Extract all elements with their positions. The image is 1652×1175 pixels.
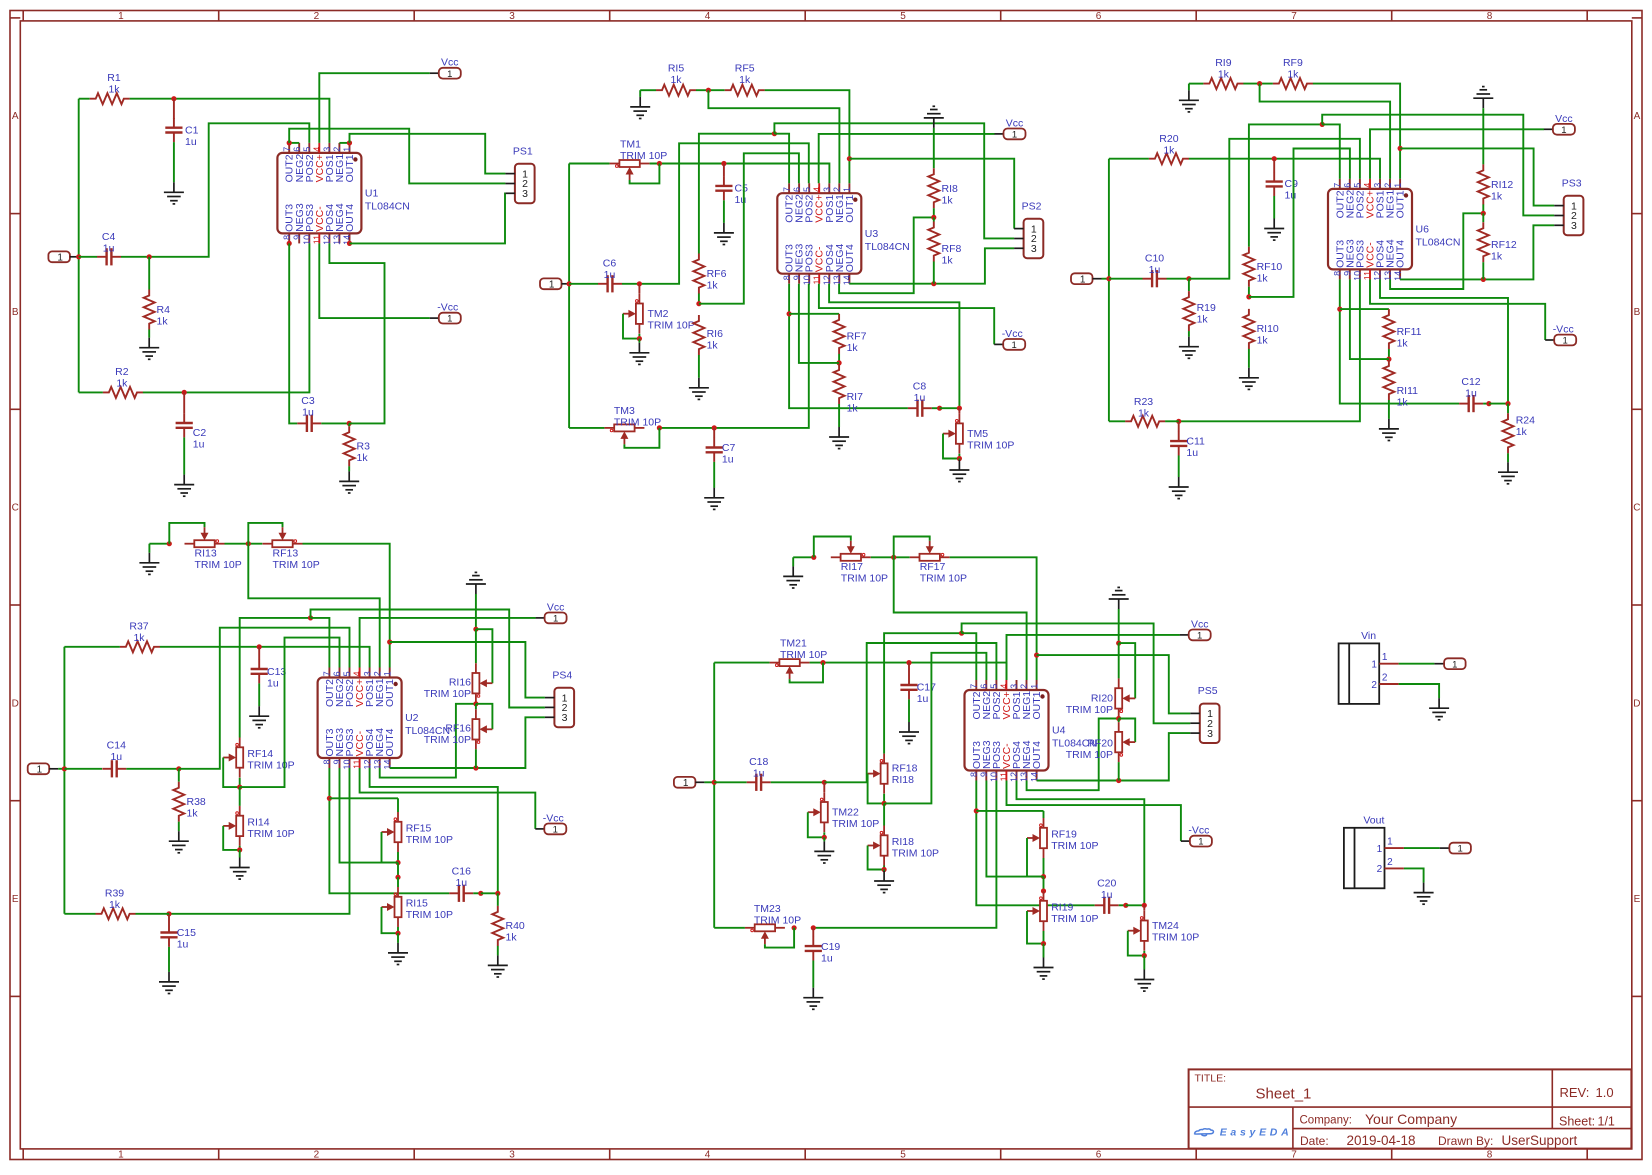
junction pin1 riser <box>847 156 852 161</box>
wire RI17 loop <box>814 537 851 558</box>
wire pin4 to Vcc <box>1370 129 1544 179</box>
wire to PS4.2 <box>311 610 545 708</box>
junction pin7 line <box>308 615 313 620</box>
power flag -Vcc3 <box>1545 339 1554 341</box>
wire C19 to ground <box>812 961 814 988</box>
svg-text:C5: C5 <box>735 183 749 195</box>
capacitor C13 <box>258 659 260 669</box>
pin 5 (POS2) <box>808 183 810 193</box>
wire to RF16 <box>475 704 477 710</box>
junction RI17 left <box>811 555 816 560</box>
op-amp U6 TL084CN <box>1328 189 1412 270</box>
svg-text:U2: U2 <box>405 712 419 724</box>
pin 13 (NEG4) <box>379 758 381 768</box>
wire RI10 to ground <box>1248 349 1250 368</box>
wire to RI16 <box>475 629 477 663</box>
junction TM23 wiper <box>792 925 797 930</box>
junction RI19 bottom <box>1041 941 1046 946</box>
junction RF15 bottom <box>395 860 400 865</box>
trimmer RF20 <box>1115 722 1122 762</box>
wire pin14 to PS4.3 <box>390 717 545 768</box>
pin 7 (OUT2) <box>328 668 330 678</box>
wire RF15 top <box>397 798 399 812</box>
wire RF5 to pin1 <box>765 90 850 183</box>
wire pin8 to C16 <box>329 768 449 893</box>
wire RF14 to pin7 line <box>240 618 311 738</box>
junction RF12 bottom <box>1481 277 1486 282</box>
pin 7 (OUT2) <box>288 143 290 153</box>
svg-text:RF20: RF20 <box>1087 738 1113 750</box>
wire to RF12 <box>1482 213 1484 222</box>
svg-text:7: 7 <box>1333 183 1343 188</box>
svg-text:Vcc: Vcc <box>1006 117 1024 129</box>
wire TM23 loop <box>765 928 794 948</box>
wire TM21 loop <box>790 663 823 683</box>
pin 5 (POS2) <box>308 143 310 153</box>
ground G4 <box>339 471 359 493</box>
svg-text:1k: 1k <box>1197 314 1209 326</box>
wire R3 to ground <box>348 466 350 471</box>
svg-text:1k: 1k <box>506 932 518 944</box>
EasyEDA logo <box>1195 1129 1214 1136</box>
svg-text:1k: 1k <box>187 808 199 820</box>
trimmer TM24 <box>1141 911 1148 951</box>
wire TM24 loop <box>1128 931 1145 956</box>
svg-text:11: 11 <box>999 772 1009 781</box>
svg-text:RI18: RI18 <box>892 774 914 786</box>
svg-text:TL084CN: TL084CN <box>1416 237 1461 249</box>
junction pin7 line <box>1320 122 1325 127</box>
wire to pin7 <box>1322 124 1340 178</box>
pin 1 <box>545 697 555 699</box>
svg-text:OUT1: OUT1 <box>844 195 856 223</box>
svg-text:7: 7 <box>322 671 332 676</box>
svg-text:8: 8 <box>282 235 292 240</box>
svg-text:RI18: RI18 <box>892 836 914 848</box>
pin 6 (NEG2) <box>339 668 341 678</box>
wire to pin7 <box>962 633 977 680</box>
junction TM1 wiper <box>657 161 662 166</box>
ground G31 <box>814 841 834 863</box>
svg-text:OUT4: OUT4 <box>344 204 356 232</box>
resistor RI11 <box>1383 360 1394 400</box>
wire vertical to R23 <box>1109 420 1125 422</box>
lead TM22 <box>823 782 825 792</box>
wire pin8 to C8 <box>789 284 908 409</box>
svg-text:U1: U1 <box>365 188 379 200</box>
svg-text:RI6: RI6 <box>707 328 724 340</box>
wire RI13 loop <box>169 523 204 544</box>
svg-text:8: 8 <box>1333 271 1343 276</box>
wire RI15 top lead <box>397 877 399 887</box>
svg-text:TRIM 10P: TRIM 10P <box>754 914 801 926</box>
svg-text:3: 3 <box>509 11 515 22</box>
net port P2 <box>540 278 562 289</box>
svg-text:3: 3 <box>522 188 528 200</box>
wire RI14 loop <box>223 826 240 850</box>
ground G23 <box>169 831 189 853</box>
junction RF10/RI10 <box>1246 294 1251 299</box>
svg-text:10: 10 <box>989 772 999 782</box>
lead C1 <box>173 99 175 119</box>
pin 14 (OUT4) <box>1399 269 1401 279</box>
svg-text:2: 2 <box>332 147 342 152</box>
wire RF9 to pin1 <box>1313 84 1400 179</box>
wire RI19 ground <box>1043 944 1045 958</box>
junction C17 <box>906 660 911 665</box>
junction C9 <box>1272 156 1277 161</box>
junction C4/R4 <box>147 254 152 259</box>
lead C19 <box>812 928 814 937</box>
wire port to junction <box>58 768 64 770</box>
resistor R39 <box>96 908 136 919</box>
capacitor C14 <box>102 768 112 770</box>
wire pin13 to RI16/RF16 <box>380 704 476 778</box>
svg-text:TRIM 10P: TRIM 10P <box>967 440 1014 452</box>
svg-text:1: 1 <box>447 69 452 80</box>
lead TM5 <box>958 408 960 413</box>
wire RF16 loop <box>476 704 493 730</box>
resistor RF10 <box>1243 247 1254 287</box>
pin 12 (POS4) <box>1016 771 1018 781</box>
wire TM21 to pin3 <box>810 663 1007 680</box>
power flag Vcc3 <box>1544 128 1553 130</box>
pin 7 (OUT2) <box>1339 179 1341 189</box>
wire C16 right <box>473 892 481 894</box>
capacitor C1 <box>173 118 175 128</box>
wire R38 top <box>178 769 180 782</box>
svg-text:2: 2 <box>314 1150 320 1161</box>
svg-text:OUT4: OUT4 <box>844 244 856 272</box>
wire to PS5.1 <box>1037 655 1191 713</box>
lead C13 <box>258 647 260 660</box>
svg-text:-Vcc: -Vcc <box>1002 328 1023 340</box>
svg-text:1u: 1u <box>914 392 926 404</box>
svg-text:-Vcc: -Vcc <box>1188 825 1209 837</box>
wire to R4 <box>148 257 150 290</box>
svg-text:TL084CN: TL084CN <box>865 241 910 253</box>
svg-text:OUT1: OUT1 <box>1395 190 1407 218</box>
ground G32 <box>874 871 894 893</box>
junction RF19 bottom <box>1041 874 1046 879</box>
junction RI15 top <box>395 875 400 880</box>
junction RF6/RI6 <box>696 301 701 306</box>
wire to PS2.1 <box>849 159 1014 229</box>
pin 8 (OUT3) <box>1339 269 1341 279</box>
trimmer RI18 <box>881 826 888 866</box>
svg-text:6: 6 <box>292 147 302 152</box>
ground G20 <box>1498 462 1518 484</box>
pin 3 (POS1) <box>369 668 371 678</box>
svg-text:RI5: RI5 <box>668 62 685 74</box>
wire pin11 to -Vcc <box>819 284 994 345</box>
pin 4 (VCC+) <box>818 183 820 193</box>
pin 8 (OUT3) <box>788 274 790 284</box>
svg-text:6: 6 <box>1343 183 1353 188</box>
svg-text:C20: C20 <box>1097 877 1116 889</box>
svg-text:1: 1 <box>1012 130 1017 141</box>
svg-text:TRIM 10P: TRIM 10P <box>247 760 294 772</box>
svg-text:2: 2 <box>1377 864 1383 875</box>
wire TM5 loop <box>943 434 959 459</box>
wire RF15-RI15 <box>397 863 399 878</box>
svg-text:OUT1: OUT1 <box>384 679 396 707</box>
svg-text:-Vcc: -Vcc <box>437 302 458 314</box>
wire to C4 <box>79 256 97 258</box>
resistor RF11 <box>1383 309 1394 349</box>
svg-text:3: 3 <box>362 671 372 676</box>
wire pin4 to Vcc <box>360 618 536 668</box>
power flag Vcc1 <box>430 72 439 74</box>
svg-text:12: 12 <box>1009 772 1019 782</box>
junction RI14 bottom <box>237 847 242 852</box>
wire junction to pin2 <box>894 557 1027 680</box>
svg-text:1u: 1u <box>821 952 833 964</box>
junction RF14/RI14 <box>237 785 242 790</box>
pin 2 (NEG1) <box>338 143 340 153</box>
svg-text:11: 11 <box>312 235 322 244</box>
wire RF10 to pin7 line <box>1249 124 1322 246</box>
wire R37 to pin3 <box>160 647 370 668</box>
svg-text:12: 12 <box>322 235 332 245</box>
wire to PS2.2 <box>774 123 1014 238</box>
svg-text:1u: 1u <box>193 439 205 451</box>
pin 8 (OUT3) <box>328 758 330 768</box>
capacitor C18 <box>747 781 757 783</box>
svg-text:RI15: RI15 <box>406 898 428 910</box>
wire C18 right <box>771 781 825 783</box>
junction C8 <box>937 406 942 411</box>
svg-text:RF16: RF16 <box>445 723 471 735</box>
wire RF16 bottom <box>475 749 477 768</box>
wire C12 right <box>1483 403 1489 405</box>
svg-text:4: 4 <box>352 671 362 676</box>
wire to TM1 <box>569 163 610 165</box>
pin 3 <box>1014 247 1024 249</box>
svg-text:1: 1 <box>1377 844 1383 855</box>
pin 6 (NEG2) <box>985 680 987 690</box>
svg-text:1: 1 <box>1080 274 1086 285</box>
svg-text:R2: R2 <box>115 366 129 378</box>
pin 2 <box>1014 238 1024 240</box>
wire to TM21 <box>714 662 769 664</box>
trimmer TM23 <box>745 924 785 931</box>
pin 2 (NEG1) <box>1026 680 1028 690</box>
svg-text:RI7: RI7 <box>847 391 864 403</box>
wire RI18 ground <box>883 870 885 872</box>
junction RF7/RI7 <box>837 360 842 365</box>
ground G28 <box>488 955 508 977</box>
pin 12 (POS4) <box>1379 269 1381 279</box>
svg-text:RI9: RI9 <box>1215 57 1232 69</box>
resistor RI9 <box>1203 78 1243 89</box>
svg-text:RF9: RF9 <box>1283 57 1303 69</box>
svg-text:C12: C12 <box>1461 376 1480 388</box>
svg-text:1u: 1u <box>722 453 734 465</box>
svg-text:R38: R38 <box>187 796 206 808</box>
svg-text:1: 1 <box>1561 125 1566 136</box>
resistor R1 <box>90 93 130 104</box>
junction RI20 wiper <box>1116 641 1121 646</box>
power flag -Vcc2 <box>994 343 1003 345</box>
junction C10/R19 <box>1186 276 1191 281</box>
wire pin11 to -Vcc <box>1370 279 1545 340</box>
svg-text:6: 6 <box>1096 1150 1102 1161</box>
junction RF16 bottom <box>473 765 478 770</box>
resistor RI10 <box>1243 309 1254 349</box>
wire to pin6 <box>884 653 986 804</box>
svg-text:1k: 1k <box>157 316 169 328</box>
ground G13 <box>1179 90 1199 112</box>
wire to C18 <box>714 781 747 783</box>
wire pin9 to junction <box>799 284 839 363</box>
net port P5 <box>674 777 696 788</box>
svg-text:1: 1 <box>382 671 392 676</box>
wire RF20 bottom <box>1118 762 1120 780</box>
svg-text:2: 2 <box>832 187 842 192</box>
svg-text:TRIM 10P: TRIM 10P <box>780 649 827 661</box>
wire C6 to pin5 <box>622 143 809 283</box>
svg-text:3: 3 <box>1207 728 1213 740</box>
pin 9 (NEG3) <box>985 771 987 781</box>
wire R20 to pin3 <box>1189 159 1380 179</box>
svg-text:TM21: TM21 <box>780 638 807 650</box>
svg-text:1: 1 <box>1198 837 1203 848</box>
ground G35 inverted <box>1109 587 1129 609</box>
wire RF18 to pin7 line <box>884 633 962 753</box>
resistor R20 <box>1149 153 1189 164</box>
svg-text:C3: C3 <box>301 395 315 407</box>
svg-text:5: 5 <box>802 187 812 192</box>
resistor RF5 <box>725 85 765 96</box>
svg-text:RI11: RI11 <box>1397 385 1419 397</box>
pin 11 (VCC-) <box>818 274 820 284</box>
wire TM5 ground <box>958 459 960 461</box>
svg-text:1k: 1k <box>1516 426 1528 438</box>
wire RI8 bottom <box>933 208 935 217</box>
svg-text:C7: C7 <box>722 442 736 454</box>
svg-text:1: 1 <box>549 279 555 290</box>
svg-text:RI20: RI20 <box>1091 693 1113 705</box>
svg-text:PS5: PS5 <box>1198 685 1218 697</box>
svg-text:C4: C4 <box>102 231 116 243</box>
wire ground stem <box>148 544 150 553</box>
junction RF18/RI18 <box>882 801 887 806</box>
svg-text:A: A <box>1634 111 1641 122</box>
svg-text:RI17: RI17 <box>841 561 863 573</box>
pin 11 (VCC-) <box>359 758 361 768</box>
svg-text:R19: R19 <box>1197 302 1216 314</box>
pin 1 (OUT1) <box>1399 179 1401 189</box>
trimmer TM1 <box>610 160 650 167</box>
svg-text:1k: 1k <box>1491 191 1503 203</box>
capacitor C10 <box>1143 278 1153 280</box>
wire RI20 loop <box>1119 643 1136 698</box>
ground G16 <box>1239 368 1259 390</box>
wire pin13 to RI12/RF12 <box>1390 213 1483 289</box>
resistor R19 <box>1183 291 1194 331</box>
junction RI8/RF8 <box>931 215 936 220</box>
wire pin12 to R40 <box>370 768 498 893</box>
svg-text:1k: 1k <box>707 339 719 351</box>
svg-text:1k: 1k <box>1287 69 1299 81</box>
svg-text:3: 3 <box>322 147 332 152</box>
wire RI15 loop <box>382 907 399 933</box>
svg-text:4: 4 <box>312 147 322 152</box>
ground G7 <box>629 343 649 365</box>
svg-text:1u: 1u <box>302 407 314 419</box>
wire C13 to ground <box>258 683 260 706</box>
svg-text:1k: 1k <box>108 84 120 96</box>
wire to pin6 <box>699 153 799 303</box>
wire pin14 to PS2.3 <box>849 248 1014 283</box>
wire port to junction <box>1102 278 1109 280</box>
capacitor C12 <box>1459 403 1469 405</box>
wire C20 right <box>1119 904 1126 906</box>
ground G12 <box>949 460 969 482</box>
pin 14 (OUT4) <box>349 233 351 243</box>
connector Vout <box>1344 828 1385 889</box>
wire port to junction <box>704 781 714 783</box>
wire net5 left vertical <box>713 663 715 928</box>
capacitor C2 <box>183 413 185 423</box>
wire junction to pin2 <box>1260 84 1391 179</box>
svg-text:1k: 1k <box>1257 273 1269 285</box>
svg-text:13: 13 <box>1383 271 1393 281</box>
svg-text:1u: 1u <box>1186 447 1198 459</box>
svg-text:C18: C18 <box>749 756 768 768</box>
wire RF15 loop <box>382 832 399 863</box>
svg-text:Drawn By:: Drawn By: <box>1438 1134 1493 1148</box>
wire to pin6 <box>240 638 340 788</box>
resistor R40 <box>492 906 503 946</box>
svg-text:C16: C16 <box>452 865 471 877</box>
wire C17 to ground <box>908 699 910 722</box>
pin 9 (NEG3) <box>339 758 341 768</box>
wire pin11 to -Vcc <box>1007 781 1181 842</box>
svg-text:8: 8 <box>969 772 979 777</box>
svg-text:1k: 1k <box>707 280 719 292</box>
wire TM24 ground <box>1143 956 1145 970</box>
capacitor C9 <box>1273 172 1275 182</box>
wire pin4 to Vcc <box>319 73 430 143</box>
capacitor C20 <box>1095 904 1105 906</box>
svg-text:9: 9 <box>292 235 302 240</box>
power flag Vcc2 <box>995 133 1004 135</box>
svg-text:10: 10 <box>1353 271 1363 281</box>
junction port/C10 <box>1106 276 1111 281</box>
wire to PS4.1 <box>390 642 545 698</box>
svg-text:11: 11 <box>812 275 822 284</box>
junction RI13 left <box>167 541 172 546</box>
svg-text:TITLE:: TITLE: <box>1195 1073 1227 1085</box>
svg-text:13: 13 <box>372 760 382 770</box>
svg-text:1: 1 <box>1012 340 1017 351</box>
svg-text:1u: 1u <box>753 768 765 780</box>
junction pin1 riser <box>387 639 392 644</box>
svg-text:1u: 1u <box>177 938 189 950</box>
svg-text:1u: 1u <box>267 677 279 689</box>
svg-text:TRIM 10P: TRIM 10P <box>406 909 453 921</box>
resistor RF6 <box>693 254 704 294</box>
junction pin8 <box>287 241 292 246</box>
svg-text:A: A <box>12 111 19 122</box>
wire C8 to TM5 <box>940 407 960 409</box>
net port P4 <box>28 763 50 774</box>
pin 2 <box>1385 867 1404 869</box>
wire C10 right <box>1167 278 1189 280</box>
svg-text:1k: 1k <box>109 899 121 911</box>
